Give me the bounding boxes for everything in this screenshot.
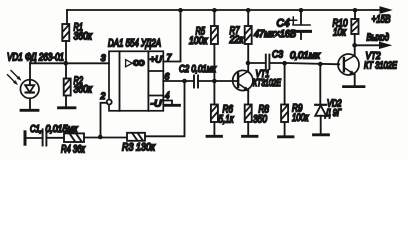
wire pin 4 to ground (163, 101, 172, 106)
wire R9 top (284, 63, 286, 104)
wire R4 to junction (84, 137, 127, 139)
svg-text:100к: 100к (292, 112, 309, 124)
svg-text:4: 4 (165, 90, 169, 100)
wire pin 6 output to C2 (163, 80, 193, 82)
svg-text:3: 3 (101, 53, 106, 63)
svg-text:0,01мк: 0,01мк (290, 51, 321, 62)
svg-text:-U: -U (151, 99, 162, 110)
label R3 130к (122, 142, 156, 154)
capacitor C1 (43, 129, 47, 145)
+15V arrowhead (380, 7, 391, 13)
wire R2 bottom (65, 96, 67, 108)
label C2 0,01мк (179, 64, 217, 75)
svg-text:C2 0,01мк: C2 0,01мк (179, 64, 217, 75)
wire R7 bottom (247, 44, 249, 63)
label +U (150, 55, 162, 66)
wire pin 7 to rail (163, 10, 180, 62)
svg-text:C1,: C1, (30, 124, 42, 135)
wire C2 to base node (198, 80, 238, 82)
label pin 7 (167, 53, 173, 63)
node feedback junction on pin6 line (182, 79, 187, 84)
ground under R6 (207, 135, 222, 138)
svg-text:∞: ∞ (133, 54, 145, 70)
svg-text:C4: C4 (277, 18, 290, 30)
label DA1 554УД2А (108, 38, 161, 50)
svg-text:22к: 22к (229, 34, 245, 46)
label R7 22к (229, 25, 245, 46)
wire R6 bottom (213, 122, 215, 136)
wire input line to pin 3 (30, 62, 109, 64)
label pin 6 (165, 72, 170, 82)
ground under R8 (243, 135, 258, 138)
node pin2/R4/R3 junction (98, 135, 103, 140)
label R2 360к (74, 75, 93, 96)
node R7 rail junction (246, 8, 251, 13)
label C1, 0,015мк (30, 124, 79, 135)
node C4 rail junction (299, 8, 304, 13)
svg-text:100к: 100к (189, 35, 208, 47)
ground under R9 (279, 135, 294, 138)
label VD1 ФД 263-01 (7, 52, 64, 64)
label +15В (372, 14, 391, 26)
svg-text:КТ 3102Е: КТ 3102Е (364, 61, 397, 72)
svg-text:DA1 554 УД2А: DA1 554 УД2А (108, 38, 161, 50)
resistor R7 (245, 26, 252, 44)
label R10 10к (333, 18, 348, 39)
transistor VT1 (233, 70, 253, 91)
node output junction (352, 43, 357, 48)
label R9 100к (292, 103, 309, 124)
wire input to C1 (27, 137, 43, 139)
wire R5 bottom (213, 44, 215, 81)
wire VD1 top (29, 63, 31, 85)
wire R10 bottom (354, 34, 356, 45)
capacitor C3 (266, 55, 270, 69)
label pin 4 (165, 90, 169, 100)
wire VT2 emitter (354, 75, 356, 87)
label R4 36к (61, 144, 86, 156)
wire C3 left (248, 62, 265, 64)
svg-text:2: 2 (100, 91, 106, 101)
label R8 350 (253, 104, 269, 126)
wire VT1 emitter (247, 90, 249, 105)
resistor R9 (281, 105, 288, 123)
node R5 rail junction (212, 8, 217, 13)
svg-text:360к: 360к (74, 84, 93, 96)
wire VD2 bottom (320, 116, 322, 135)
svg-text:Выход: Выход (367, 33, 390, 44)
wire R5 top (213, 10, 215, 26)
svg-text:R3 130к: R3 130к (122, 142, 156, 154)
resistor R6 (211, 105, 218, 123)
wire +15V top rail (67, 9, 381, 11)
svg-text:+15В: +15В (372, 14, 391, 26)
svg-text:VD1 ФД 263-01: VD1 ФД 263-01 (7, 52, 64, 64)
ground under R2 (59, 106, 76, 109)
wire VT2 collector (354, 45, 356, 55)
label pin 2 (100, 91, 106, 101)
svg-text:5,1к: 5,1к (219, 114, 235, 126)
label -U (151, 99, 162, 110)
op-amp gain symbol ∞ (133, 54, 145, 70)
wire pin 2 to bottom (101, 103, 107, 137)
label R5 100к (189, 26, 208, 48)
output arrowhead (380, 42, 391, 48)
svg-text:47мк×16В: 47мк×16В (254, 29, 296, 40)
label R1 360к (74, 22, 93, 43)
ground under VD1 (21, 109, 38, 112)
wire R7 top (247, 10, 249, 26)
wire R6 top (213, 81, 215, 105)
wire R10 top (354, 10, 356, 19)
ground at pin 4 (165, 104, 180, 107)
photodiode VD1 (8, 71, 40, 99)
resistor R3 (127, 133, 145, 141)
wire R2 top (65, 63, 67, 78)
label R6 5,1к (219, 104, 235, 126)
capacitor C2 (194, 76, 198, 88)
wire C1 to R4 (46, 137, 64, 139)
wire VD1 bottom (29, 98, 31, 110)
label pin 3 (101, 53, 106, 63)
node VD2 junction (318, 62, 323, 67)
wire R1 bottom (65, 41, 67, 63)
wire output arrow (355, 44, 380, 46)
svg-text:10к: 10к (333, 26, 347, 38)
input terminal (24, 132, 27, 144)
svg-text:Д 9Г: Д 9Г (325, 108, 342, 119)
transistor VT2 (338, 54, 359, 75)
svg-text:350: 350 (253, 114, 267, 126)
label VT1 КТ3102Е (253, 69, 281, 89)
resistor R5 (211, 26, 218, 44)
wire R3 to feedback riser (145, 81, 185, 136)
wire R1 top drop from rail corner (66, 10, 68, 24)
label C4 47мк×16В (254, 18, 296, 41)
node R5/R6 bias junction (212, 79, 217, 84)
ground at VT2 emitter (344, 85, 365, 88)
label VT2 КТ 3102Е (364, 51, 397, 72)
svg-text:КТ3102Е: КТ3102Е (253, 78, 281, 89)
node R9 junction (282, 61, 287, 66)
svg-text:R4 36к: R4 36к (61, 144, 86, 156)
node junction R1/R2/VD1/pin3 (64, 61, 69, 66)
resistor R1 (62, 24, 69, 41)
capacitor C4 (290, 10, 311, 39)
wire R8 bottom (247, 122, 249, 136)
node rail/pin7 junction (178, 8, 183, 13)
svg-text:+U: +U (150, 55, 162, 66)
node R7/VT1 collector/C3 junction (246, 61, 251, 66)
wire R9 bottom (284, 122, 286, 137)
node R10 rail junction (353, 8, 358, 13)
svg-text:360к: 360к (74, 31, 93, 43)
label VD2 Д 9Г (325, 99, 342, 120)
ground under VD2 (314, 133, 329, 136)
wire VT1 collector (247, 63, 249, 71)
svg-text:6: 6 (165, 72, 170, 82)
label Выход (367, 33, 390, 44)
resistor R4 (64, 133, 84, 142)
resistor R2 (64, 79, 71, 96)
svg-text:C3: C3 (272, 50, 283, 61)
diode VD2 (315, 105, 326, 116)
resistor R8 (245, 105, 252, 123)
resistor R10 (351, 19, 358, 34)
op-amp U1 DA1 box (107, 51, 164, 111)
label C3 0,01мк (272, 50, 321, 62)
wire C3 right to base VT2 (269, 63, 339, 64)
wire VD2 top (319, 64, 321, 105)
